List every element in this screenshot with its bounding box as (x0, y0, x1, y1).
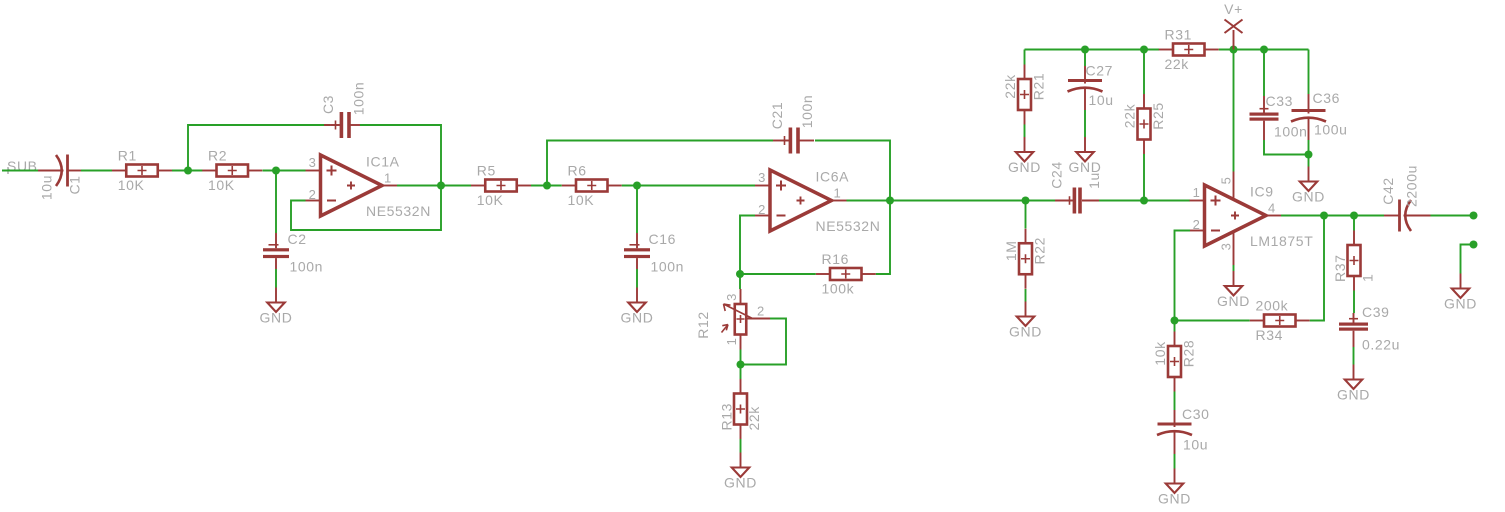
svg-text:1: 1 (724, 338, 739, 346)
junction node A (184, 167, 192, 175)
op-amp IC6A NE5532N (755, 169, 880, 235)
wire feedback C21 right (815, 141, 890, 201)
wire IC9 pin2 loop (1175, 231, 1191, 321)
wire node G to R12 (739, 274, 741, 289)
wire output to R16 right (876, 201, 890, 275)
ground (1444, 274, 1477, 312)
wire rail to C36 (1308, 50, 1310, 95)
svg-text:1M: 1M (1003, 240, 1019, 261)
svg-text:2200u: 2200u (1403, 165, 1419, 207)
svg-text:R34: R34 (1256, 327, 1283, 343)
junction node D (543, 182, 551, 190)
svg-text:R16: R16 (822, 251, 849, 267)
junction ground stub node (1470, 241, 1478, 249)
ground (1008, 137, 1041, 175)
wire node L to R34 (1175, 320, 1250, 322)
resistor R6 10K (562, 163, 622, 209)
svg-text:GND: GND (1337, 387, 1370, 403)
svg-text:1: 1 (834, 186, 842, 201)
capacitor C30 10u (1157, 410, 1192, 454)
potentiometer R12 (695, 289, 770, 350)
capacitor C1 10u (38, 155, 81, 187)
resistor R25 22k (1121, 94, 1166, 154)
wire C36 bottom (1308, 140, 1310, 155)
wire C39 to ground (1353, 347, 1355, 365)
wire node K to ground (1308, 155, 1310, 167)
svg-text:10K: 10K (477, 192, 504, 208)
wire IC6A output to C24 (890, 200, 1055, 202)
resistor R34 200k (1250, 298, 1310, 344)
wire R22 top (1025, 201, 1027, 229)
capacitor C33 100n (1250, 96, 1279, 140)
svg-text:C27: C27 (1086, 63, 1113, 79)
wire C30 to ground (1174, 454, 1176, 469)
wire R28 top (1174, 321, 1176, 332)
svg-text:2: 2 (1193, 217, 1201, 232)
label C3 (320, 82, 367, 116)
svg-text:IC1A: IC1A (366, 154, 400, 170)
svg-text:GND: GND (1444, 296, 1477, 312)
wire R37 to C39 (1353, 291, 1355, 314)
svg-text:R13: R13 (718, 403, 734, 430)
ground (1217, 271, 1250, 309)
svg-text:LM1875T: LM1875T (1250, 233, 1313, 249)
wire output ground stub (1461, 245, 1474, 274)
ground (1337, 365, 1370, 403)
junction output node (1470, 212, 1478, 220)
svg-text:1: 1 (1193, 185, 1201, 200)
svg-text:22k: 22k (746, 406, 762, 431)
junction node M (1320, 212, 1328, 220)
svg-text:3: 3 (1219, 243, 1234, 251)
svg-text:5: 5 (1219, 177, 1234, 185)
svg-text:3: 3 (309, 155, 317, 170)
ground (621, 288, 654, 326)
junction rail R25 (1140, 46, 1148, 54)
svg-text:C39: C39 (1362, 304, 1389, 320)
svg-text:10K: 10K (118, 177, 145, 193)
junction node N (1350, 212, 1358, 220)
svg-text:R37: R37 (1332, 255, 1348, 282)
svg-text:0.22u: 0.22u (1362, 337, 1400, 353)
junction node H (737, 361, 745, 369)
svg-text:GND: GND (621, 310, 654, 326)
junction node F (886, 197, 894, 205)
svg-text:100n: 100n (651, 258, 685, 274)
svg-text:10K: 10K (208, 177, 235, 193)
wire feedback C3 left (188, 125, 330, 171)
supply V+ (1224, 1, 1243, 50)
svg-text:C33: C33 (1266, 93, 1293, 109)
junction rail C33 (1260, 46, 1268, 54)
svg-text:C2: C2 (288, 231, 307, 247)
wire R1 to R2 (172, 170, 203, 172)
svg-text:R6: R6 (568, 163, 587, 179)
wire node H to R13 (740, 365, 742, 380)
junction node C (437, 182, 445, 190)
wire IC1A feedback to pin2 (291, 186, 441, 231)
wire IC1A output (397, 185, 441, 187)
wire feedback C21 left (547, 141, 773, 186)
capacitor C2 100n (263, 231, 323, 274)
wire V+ to IC9 pin5 (1233, 50, 1235, 172)
resistor R21 22k (1002, 65, 1047, 125)
svg-text:22k: 22k (1002, 74, 1018, 99)
svg-text:R2: R2 (208, 148, 227, 164)
wire R12 wiper loop (741, 319, 787, 365)
wire C2 top (275, 171, 277, 234)
wire R16 left to pin2 node (740, 273, 816, 275)
svg-text:SUB: SUB (7, 158, 38, 174)
ground (1292, 167, 1325, 205)
svg-text:100n: 100n (290, 258, 324, 274)
wire node G to IC6A pin2 (740, 216, 755, 275)
wire R28 to C30 (1174, 392, 1176, 411)
wire R21 to ground (1024, 125, 1026, 138)
wire IC9 output (1281, 215, 1384, 217)
wire IC9 pin3 to ground (1233, 265, 1235, 271)
resistor R5 10K (471, 163, 531, 209)
wire V+ rail right (1219, 49, 1309, 51)
svg-text:100n: 100n (350, 82, 366, 116)
ground (1069, 137, 1102, 175)
resistor R37 1 (1332, 231, 1376, 291)
wire rail to R21 (1024, 50, 1026, 65)
svg-text:GND: GND (1008, 159, 1041, 175)
label C1 (38, 175, 82, 200)
svg-text:IC6A: IC6A (816, 169, 850, 185)
wire feedback C3 right (360, 125, 441, 186)
svg-text:22k: 22k (1165, 56, 1190, 72)
ground (260, 288, 293, 326)
wire R2 to IC1A pin3 (263, 170, 306, 172)
resistor R28 10k (1152, 332, 1197, 392)
wire C33 bottom (1264, 140, 1309, 155)
svg-text:R21: R21 (1030, 73, 1046, 100)
wire R5 to R6 (531, 185, 562, 187)
wire R22 to ground (1025, 289, 1027, 302)
wire rail to C33 (1263, 50, 1265, 97)
svg-text:2: 2 (757, 304, 765, 319)
svg-text:100n: 100n (1274, 124, 1308, 140)
svg-text:R22: R22 (1031, 237, 1047, 264)
svg-text:C30: C30 (1182, 406, 1209, 422)
label C21 (769, 95, 815, 130)
wire C27 to ground (1084, 110, 1086, 137)
capacitor C27 10u (1068, 66, 1103, 110)
resistor R16 100k (816, 251, 876, 297)
junction node E (633, 182, 641, 190)
svg-text:3: 3 (758, 170, 766, 185)
svg-text:3: 3 (724, 293, 739, 301)
label C27 (1086, 63, 1114, 109)
node SUB (input net label) (5, 158, 38, 174)
wire R25 to rail (1143, 50, 1145, 95)
junction rail C27 (1081, 46, 1089, 54)
svg-text:IC9: IC9 (1250, 184, 1274, 200)
svg-text:10u: 10u (1089, 92, 1114, 108)
label C33 (1266, 93, 1308, 140)
svg-text:GND: GND (260, 310, 293, 326)
ground (1009, 302, 1042, 340)
wire C2 to ground (275, 269, 277, 288)
wire C16 top (636, 186, 638, 234)
wire V+ rail left (1025, 49, 1160, 51)
svg-text:4: 4 (1268, 201, 1276, 216)
svg-text:R25: R25 (1150, 102, 1166, 129)
label C39 (1362, 304, 1400, 353)
svg-text:NE5532N: NE5532N (816, 218, 881, 234)
capacitor C24 1u (1048, 161, 1102, 213)
svg-text:10k: 10k (1152, 341, 1168, 366)
op-amp IC1A NE5532N (306, 154, 431, 220)
svg-text:10K: 10K (568, 192, 595, 208)
junction node B (272, 167, 280, 175)
svg-text:R1: R1 (118, 148, 137, 164)
resistor R1 10K (112, 148, 172, 194)
wire IC6A output (847, 200, 891, 202)
svg-text:C21: C21 (769, 102, 785, 129)
capacitor C3 100n (324, 112, 365, 138)
ground (724, 453, 757, 491)
capacitor C39 0.22u (1339, 313, 1368, 347)
svg-text:22k: 22k (1121, 103, 1137, 128)
svg-text:10u: 10u (1183, 437, 1208, 453)
wire R13 to ground (740, 439, 742, 453)
svg-text:GND: GND (1069, 159, 1102, 175)
svg-text:10u: 10u (38, 175, 54, 200)
svg-text:C3: C3 (320, 95, 336, 114)
svg-text:1: 1 (1359, 274, 1375, 282)
svg-text:2: 2 (309, 187, 317, 202)
svg-text:100n: 100n (799, 95, 815, 129)
svg-text:2: 2 (758, 202, 766, 217)
svg-text:100k: 100k (822, 281, 855, 297)
wire node J up to R25 (1143, 154, 1145, 201)
svg-text:GND: GND (1158, 491, 1191, 507)
capacitor C16 100n (624, 231, 684, 274)
svg-text:GND: GND (1292, 189, 1325, 205)
resistor R13 22k (718, 379, 762, 439)
label C42 (1380, 165, 1419, 207)
wire R6 to IC6A pin3 (622, 185, 755, 187)
svg-text:100u: 100u (1314, 122, 1348, 138)
svg-text:GND: GND (724, 475, 757, 491)
wire C1 to R1 (81, 170, 112, 172)
wire C42 to output node (1431, 215, 1474, 217)
svg-text:GND: GND (1217, 293, 1250, 309)
junction rail V+ (1230, 46, 1238, 54)
capacitor C21 100n (773, 128, 814, 154)
junction node J (1140, 197, 1148, 205)
junction node K (1305, 151, 1313, 159)
label C30 (1182, 406, 1209, 453)
capacitor C36 100u (1291, 94, 1326, 140)
resistor R31 22k (1159, 27, 1219, 73)
label C36 (1313, 90, 1348, 138)
junction node I (1022, 197, 1030, 205)
ground (1158, 469, 1191, 507)
svg-text:R31: R31 (1165, 27, 1192, 43)
wire rail to C27 (1084, 50, 1086, 67)
svg-text:200k: 200k (1256, 298, 1289, 314)
resistor R2 10K (202, 148, 262, 194)
svg-text:C24: C24 (1048, 161, 1064, 188)
wire R12 pin1 to node H (740, 350, 742, 365)
wire to R5 (441, 185, 471, 187)
wire C16 to ground (636, 269, 638, 288)
svg-text:C36: C36 (1313, 90, 1340, 106)
svg-text:C42: C42 (1380, 177, 1396, 204)
wire C24 to IC9 pin1 (1099, 200, 1190, 202)
wire R34 to output (1310, 216, 1324, 321)
svg-text:GND: GND (1009, 324, 1042, 340)
svg-text:NE5532N: NE5532N (366, 203, 431, 219)
svg-text:V+: V+ (1224, 1, 1243, 17)
wire SUB input (2, 170, 38, 172)
svg-text:C1: C1 (66, 175, 82, 194)
junction node G (736, 270, 744, 278)
svg-text:1: 1 (384, 171, 392, 186)
wire R37 top (1353, 216, 1355, 231)
junction node L (1171, 317, 1179, 325)
svg-text:R5: R5 (477, 163, 496, 179)
resistor R22 1M (1003, 229, 1048, 289)
capacitor C42 2200u (1384, 200, 1431, 232)
svg-text:R12: R12 (695, 311, 711, 338)
svg-text:R28: R28 (1180, 340, 1196, 367)
svg-text:C16: C16 (649, 231, 676, 247)
op-amp IC9 LM1875T (1190, 172, 1314, 266)
